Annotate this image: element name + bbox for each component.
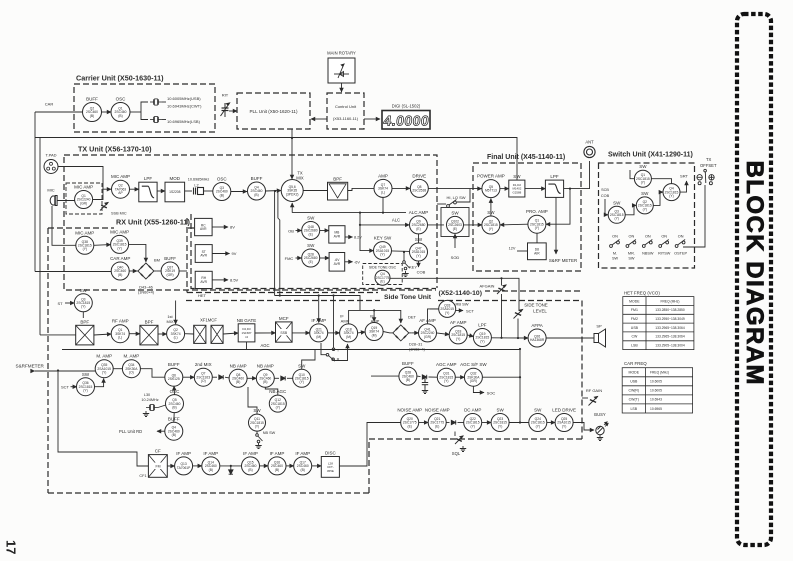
svg-text:TX Unit (X56-1370-10): TX Unit (X56-1370-10) — [78, 145, 152, 154]
svg-text:8.2V: 8.2V — [354, 236, 362, 240]
wire xf to nbgate — [223, 333, 238, 334]
junction q19 top — [373, 309, 375, 311]
svg-text:BUFF: BUFF — [251, 176, 263, 181]
wire carrier feed v1 — [274, 191, 276, 296]
svg-text:(O): (O) — [129, 371, 134, 375]
svg-text:(GR): (GR) — [470, 379, 477, 383]
switch Q2 — [636, 191, 653, 214]
diode agc — [422, 375, 426, 379]
wire q102 to final sw — [464, 224, 482, 226]
svg-text:ST: ST — [57, 301, 63, 306]
wire q40 in — [35, 271, 111, 273]
wire alc drop — [360, 213, 409, 225]
wire pa to sw — [500, 188, 509, 190]
svg-text:NB AMP: NB AMP — [230, 363, 247, 368]
ssb mic level pot — [100, 203, 108, 211]
svg-text:USB: USB — [631, 326, 639, 330]
rx bpf2 — [140, 319, 158, 345]
svg-text:SQL: SQL — [452, 451, 461, 456]
crystal L30 — [146, 404, 158, 410]
svg-text:(M): (M) — [346, 335, 351, 339]
wire osc to crystals — [130, 111, 141, 113]
wire tr R line — [334, 344, 347, 361]
rx unit left edge — [47, 228, 49, 493]
junction afgain stub — [500, 277, 502, 279]
wire lpf to afpa — [491, 337, 528, 339]
switch Q48 — [302, 216, 320, 240]
wire side tone out — [390, 278, 519, 311]
key sw Q49 — [374, 236, 392, 260]
if amp Q15 — [242, 451, 260, 475]
switch Q102 — [447, 210, 464, 233]
svg-text:(B): (B) — [172, 433, 176, 437]
svg-text:AFGAIN: AFGAIN — [480, 284, 495, 289]
svg-text:CW: CW — [631, 335, 638, 339]
buffer Q37 — [161, 256, 179, 280]
wire lpf out to ant — [564, 161, 590, 189]
svg-text:CF1: CF1 — [139, 474, 146, 478]
svg-text:AMP: AMP — [378, 173, 388, 178]
switch Q3 rx — [74, 288, 92, 312]
svg-text:(Y): (Y) — [445, 311, 449, 315]
junction agc bus — [519, 348, 521, 350]
svg-text:BUFF: BUFF — [402, 361, 414, 366]
svg-text:OSTEP: OSTEP — [674, 252, 687, 256]
diode nb 2 — [281, 376, 285, 380]
svg-text:SCT: SCT — [61, 385, 70, 390]
svg-text:(Y): (Y) — [117, 246, 121, 250]
svg-text:XF1MCF: XF1MCF — [200, 318, 217, 323]
1st mixer Q2 — [167, 325, 185, 343]
wire sw to lpf — [525, 188, 546, 190]
wire q47 up — [418, 234, 420, 243]
wire agc riser — [519, 350, 521, 423]
svg-text:SW: SW — [639, 164, 647, 169]
svg-text:MCF: MCF — [279, 316, 289, 321]
svg-text:IF AMP: IF AMP — [295, 451, 310, 456]
svg-text:(Y): (Y) — [470, 424, 474, 428]
svg-text:IF AMP: IF AMP — [311, 318, 326, 323]
wire xtal to q5 — [158, 405, 166, 408]
crystal USB/CWT — [150, 99, 162, 105]
wire alc to txmix — [291, 203, 293, 213]
svg-text:LED DRIVE: LED DRIVE — [552, 408, 576, 413]
junction key — [403, 251, 405, 253]
svg-text:DRIVE: DRIVE — [412, 173, 426, 178]
wire soc — [473, 386, 484, 392]
svg-text:BUFF: BUFF — [86, 97, 98, 102]
svg-text:DET: DET — [408, 315, 417, 320]
svg-text:AFPA: AFPA — [531, 323, 542, 328]
svg-text:POWER AMP: POWER AMP — [477, 174, 505, 179]
switch unit box — [599, 163, 695, 268]
svg-text:ANT: ANT — [585, 140, 594, 145]
svg-text:(3PDX2): (3PDX2) — [286, 192, 299, 196]
svg-text:(B): (B) — [209, 468, 213, 472]
wire q39 to bm — [129, 244, 146, 262]
svg-text:8.5V: 8.5V — [230, 278, 239, 283]
svg-text:Control Unit: Control Unit — [335, 104, 357, 109]
svg-text:(GR): (GR) — [80, 201, 87, 205]
wire nb sw — [256, 431, 258, 436]
svg-text:SSB: SSB — [280, 331, 288, 335]
wire q36 to q35 — [95, 379, 104, 387]
svg-text:1S2208: 1S2208 — [169, 190, 181, 194]
junction ant line — [569, 188, 571, 190]
svg-text:HET: HET — [198, 293, 207, 298]
wire if1 to if2 — [328, 332, 340, 334]
svg-text:SW: SW — [307, 216, 315, 221]
svg-text:FREQ (MHz): FREQ (MHz) — [650, 371, 669, 375]
svg-text:BLOCK DIAGRAM: BLOCK DIAGRAM — [741, 161, 768, 387]
svg-text:(L): (L) — [118, 336, 122, 340]
rx mic amp Q39 — [110, 229, 129, 253]
svg-text:COB: COB — [417, 270, 426, 275]
wire q23 to q24 — [509, 422, 529, 424]
svg-text:(Y): (Y) — [498, 424, 502, 428]
svg-text:(X53-1160-11): (X53-1160-11) — [333, 116, 359, 121]
svg-text:(B): (B) — [275, 468, 279, 472]
svg-text:NB AMP: NB AMP — [257, 363, 274, 368]
svg-text:FM1: FM1 — [631, 308, 638, 312]
mic amp Q1 — [74, 185, 93, 209]
svg-text:SW: SW — [513, 174, 521, 179]
svg-text:USB: USB — [630, 380, 638, 384]
svg-text:LPF: LPF — [550, 174, 559, 179]
tx lpf — [139, 176, 157, 202]
wire q25 to busy — [573, 423, 594, 431]
svg-text:(E): (E) — [308, 232, 312, 236]
junction meter line — [57, 369, 59, 371]
agc cap — [422, 377, 428, 388]
svg-text:2SK125: 2SK125 — [168, 377, 180, 381]
svg-text:(GR): (GR) — [424, 335, 431, 339]
crystal LSB — [150, 116, 162, 122]
wire q19 top drop — [373, 310, 375, 321]
T/R switch — [326, 348, 335, 361]
wire agc drop — [246, 342, 248, 349]
svg-text:IF AMP: IF AMP — [203, 451, 218, 456]
wire rx in — [40, 334, 76, 336]
wire afgain down — [501, 294, 503, 338]
wire hi lo right — [457, 189, 470, 202]
wire q28 to -6v avr — [320, 257, 329, 259]
wire left mid vertical — [58, 371, 148, 467]
het dashed bottom — [187, 292, 378, 294]
wire q38 in — [52, 206, 76, 245]
switch Q36 — [77, 372, 95, 396]
wire q21 diode — [446, 422, 449, 424]
wire sod arrow — [454, 234, 456, 248]
oscillator Q1 — [111, 97, 130, 122]
svg-text:CAR AMP: CAR AMP — [110, 256, 130, 261]
st avr — [195, 245, 212, 263]
wire mix2 diode — [212, 376, 217, 378]
wire q20 to q21 — [419, 422, 429, 424]
wire q1 to q2 — [93, 189, 111, 199]
switch Q3 — [608, 200, 625, 223]
wire q33 in — [430, 308, 439, 310]
svg-text:(E): (E) — [380, 280, 384, 284]
svg-text:(Y): (Y) — [535, 226, 539, 230]
svg-text:Switch Unit (X41-1290-11): Switch Unit (X41-1290-11) — [608, 152, 693, 159]
dc amp Q22 — [464, 408, 482, 432]
buffer Q28b — [399, 361, 417, 385]
svg-text:AVR: AVR — [334, 235, 341, 239]
wire q8 to q9 — [247, 377, 256, 379]
svg-text:(Y): (Y) — [380, 253, 384, 257]
main rotary box — [327, 51, 356, 84]
svg-text:ON: ON — [612, 235, 618, 239]
wire q35 to q34 — [113, 368, 122, 370]
led drive Q25 — [552, 408, 576, 432]
svg-text:(B): (B) — [118, 114, 122, 118]
svg-text:133.2905~138.3004: 133.2905~138.3004 — [655, 344, 685, 348]
side tone top 3 — [438, 301, 582, 440]
svg-text:NB GATE: NB GATE — [237, 318, 256, 323]
wire ostep to tx offset — [683, 185, 705, 247]
final sw box — [509, 174, 525, 197]
wire q1 in — [630, 170, 634, 179]
wire q15 to q16 — [260, 465, 269, 467]
svg-text:2nd MIX: 2nd MIX — [195, 362, 212, 367]
svg-text:(Y): (Y) — [299, 380, 303, 384]
svg-text:D43~46: D43~46 — [139, 286, 152, 290]
t-pad jack — [44, 160, 58, 174]
wire main top rail — [35, 138, 517, 181]
switch Q11 — [249, 408, 266, 431]
carrier unit box — [74, 84, 215, 132]
wire crystal lower out — [162, 119, 166, 121]
wire pll to control — [311, 118, 327, 120]
wire tpad to tx — [58, 167, 103, 190]
svg-text:133.2965~138.3064: 133.2965~138.3064 — [655, 335, 685, 339]
svg-text:10.6005: 10.6005 — [650, 389, 662, 393]
ground agc cap — [422, 388, 428, 394]
svg-text:10.6943MHz(CWT): 10.6943MHz(CWT) — [167, 104, 202, 109]
junction key feed — [359, 224, 361, 226]
wire q28 diode — [417, 375, 421, 378]
svg-text:(E): (E) — [407, 424, 411, 428]
svg-text:Carrier Unit (X50-1630-11): Carrier Unit (X50-1630-11) — [76, 74, 164, 83]
het freq table — [623, 297, 694, 350]
wire alc out — [428, 224, 445, 226]
label FM in cf — [153, 463, 164, 469]
svg-text:OB: OB — [288, 229, 294, 234]
rx right inner dashed 1 — [186, 218, 188, 293]
switch Q10 — [293, 363, 311, 387]
wire q16 to q17 — [286, 465, 294, 467]
wire scb to q3 — [605, 199, 608, 215]
svg-text:NBSW: NBSW — [642, 252, 654, 256]
wire q28 in — [371, 375, 399, 377]
svg-text:M. AMP: M. AMP — [96, 354, 112, 359]
rx unit bottom step — [369, 439, 582, 493]
junction if diode — [230, 465, 232, 467]
svg-text:COB: COB — [601, 194, 610, 198]
wire q2 to lpf — [130, 188, 139, 190]
wire key sw feed — [360, 225, 374, 251]
svg-text:MODE: MODE — [629, 371, 640, 375]
title banner border — [737, 14, 771, 545]
svg-text:(Y): (Y) — [456, 337, 460, 341]
svg-text:AGC S/F SW: AGC S/F SW — [460, 362, 487, 367]
rf amp Q1 — [111, 319, 129, 343]
svg-text:IF AMP: IF AMP — [243, 451, 258, 456]
junction carrier bus — [279, 294, 281, 296]
wire nbgate to mcf — [255, 332, 276, 334]
wire q13 to q14 — [193, 465, 202, 467]
svg-text:S&RFMETER: S&RFMETER — [16, 363, 45, 368]
svg-text:SSB MIC: SSB MIC — [111, 212, 127, 216]
svg-text:MIX: MIX — [296, 176, 304, 181]
svg-text:KEY SW: KEY SW — [374, 236, 392, 241]
wire af1 to af2 — [437, 333, 450, 335]
speaker — [594, 329, 606, 347]
junction alc node — [382, 212, 384, 214]
svg-text:DIGI (SL-1502): DIGI (SL-1502) — [392, 104, 421, 109]
wire sw2 up to pa — [490, 199, 492, 216]
wire key line down — [403, 252, 405, 262]
junction alc left — [359, 212, 361, 214]
toggle switch OSTEP — [675, 240, 685, 248]
control unit box — [327, 93, 364, 129]
svg-text:MAIN ROTARY: MAIN ROTARY — [327, 51, 356, 56]
svg-text:(Y): (Y) — [416, 254, 420, 258]
q102 enclosure — [441, 208, 469, 237]
svg-text:(B): (B) — [300, 468, 304, 472]
svg-text:SCB: SCB — [601, 188, 609, 192]
svg-text:TX: TX — [706, 157, 712, 162]
wire s rf meter feed — [35, 370, 96, 372]
svg-text:AIR: AIR — [534, 251, 540, 255]
nb amp Q9 — [256, 363, 274, 387]
disc box — [321, 451, 339, 478]
svg-text:L2: L2 — [194, 184, 198, 188]
wire q33 sct — [456, 310, 463, 312]
if amp Q13 — [175, 451, 193, 475]
svg-text:(O): (O) — [201, 379, 206, 383]
svg-text:(Y): (Y) — [641, 181, 645, 185]
wire l2 to osc — [204, 190, 213, 192]
wire cf to q13 — [167, 465, 174, 467]
svg-text:(E): (E) — [416, 227, 420, 231]
rh avr — [195, 271, 212, 288]
svg-text:SW: SW — [307, 243, 315, 248]
wire control to display — [364, 118, 380, 120]
buffer Q4 — [248, 176, 266, 200]
mic amp sub box — [66, 183, 102, 214]
svg-text:M.: M. — [613, 252, 617, 256]
ground L30 — [143, 411, 149, 417]
wire carrier feed v2 — [278, 192, 280, 296]
svg-text:G2588: G2588 — [513, 191, 522, 195]
svg-text:(E): (E) — [308, 260, 312, 264]
wire bm to buff — [157, 270, 161, 272]
alc amp Q9 — [409, 210, 429, 234]
wire left rail vertical — [39, 138, 41, 335]
wire q38 to q39 — [94, 244, 111, 247]
if amp Q18 — [340, 324, 358, 342]
rx right inner dashed 2 — [191, 214, 436, 289]
wire q6 to mix2 — [183, 376, 195, 378]
svg-text:SOD: SOD — [451, 255, 460, 260]
wire q10 up — [302, 349, 315, 369]
wire if3 to det — [383, 332, 390, 333]
svg-text:AGC: AGC — [260, 343, 269, 348]
svg-text:DISC: DISC — [325, 451, 337, 456]
power amp Q5 — [477, 174, 505, 198]
svg-text:Side Tone Unit: Side Tone Unit — [384, 294, 432, 301]
svg-text:(E): (E) — [453, 227, 457, 231]
svg-text:RF AMP: RF AMP — [112, 319, 129, 324]
wire diode to q31 — [429, 376, 438, 378]
if amp Q14 — [202, 451, 220, 475]
svg-text:MIC: MIC — [47, 188, 54, 193]
squelch pot — [455, 436, 463, 444]
svg-text:(X52-1140-10): (X52-1140-10) — [439, 290, 482, 297]
wire 8v — [212, 226, 228, 228]
svg-text:MIC AMP: MIC AMP — [75, 230, 94, 235]
svg-text:(Y): (Y) — [255, 425, 259, 429]
nb amp Q8 — [229, 363, 247, 387]
wire diode to q8 — [225, 376, 229, 379]
svg-text:BPF: BPF — [80, 319, 89, 324]
svg-text:SOC: SOC — [487, 391, 496, 396]
svg-text:LPF: LPF — [478, 323, 487, 328]
af lpf Q19b — [473, 323, 491, 347]
wire pll down to tx mix — [291, 129, 293, 179]
wire afpa to sp — [546, 337, 594, 339]
svg-text:SW: SW — [641, 191, 649, 196]
svg-text:OFFSET: OFFSET — [700, 163, 717, 168]
wire rfamp to bpf2 — [129, 333, 140, 335]
svg-text:TA7061P: TA7061P — [177, 466, 191, 470]
side tone osc dashed box — [363, 264, 403, 285]
final unit box — [473, 163, 581, 271]
svg-text:SIDE TONE: SIDE TONE — [524, 303, 548, 308]
svg-text:SW: SW — [80, 288, 88, 293]
svg-text:HET FREQ (VCO): HET FREQ (VCO) — [624, 291, 660, 296]
tx mixer Q5 Q6 — [281, 180, 303, 202]
tx offset trimmers — [697, 169, 714, 184]
ground key — [402, 271, 408, 277]
wire sct to q36 — [71, 386, 77, 388]
wire db air up — [536, 233, 538, 243]
if amp Q19 — [365, 323, 383, 341]
svg-text:SCT: SCT — [466, 309, 475, 314]
wire 9v — [212, 253, 229, 255]
wire q14 to q15 — [220, 465, 242, 467]
pro amp Q1 — [526, 209, 548, 233]
svg-text:FM2: FM2 — [631, 317, 638, 321]
agc amp Q31 — [436, 362, 457, 386]
rx unit bottom edge — [48, 492, 369, 494]
wire q12 wiring — [265, 387, 278, 395]
junction riser bottom — [519, 421, 521, 423]
svg-text:BUSY: BUSY — [594, 412, 606, 417]
svg-text:455E: 455E — [327, 469, 334, 473]
svg-text:AGC AMP: AGC AMP — [436, 362, 457, 367]
svg-text:(Y): (Y) — [562, 424, 566, 428]
wire diode to q22 — [458, 422, 464, 424]
wire rf gain line — [582, 397, 588, 399]
wire q2 to q4 — [653, 192, 663, 205]
wire alc bus — [292, 212, 406, 214]
wire car in — [35, 111, 83, 113]
wire amp to drive — [392, 187, 410, 189]
buffer Q2 — [83, 97, 102, 122]
